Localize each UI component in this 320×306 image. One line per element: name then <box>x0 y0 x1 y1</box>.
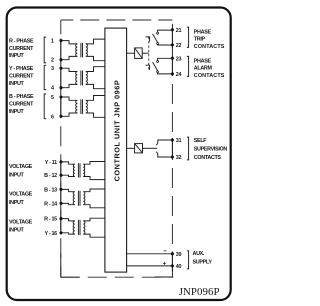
wire: secondary top of T4 to control unit <box>83 162 105 165</box>
wire: control unit to terminal 39 (negative) <box>127 253 173 255</box>
wire: terminal 24 to blade hinge <box>158 73 173 74</box>
wire: secondary bottom of T6 to control unit <box>83 234 105 237</box>
wire: terminal-to-primary top of T6 <box>61 219 75 221</box>
svg-text:Y - PHASE: Y - PHASE <box>9 66 34 72</box>
bracket for terminals 1-2 <box>44 37 46 63</box>
svg-text:INPUT: INPUT <box>9 53 25 59</box>
transformer T5 secondary winding <box>83 192 85 205</box>
terminal 16 junction dot <box>59 231 62 234</box>
wire: terminal 22 to blade hinge <box>158 43 173 46</box>
alarm contact K1b moving blade <box>153 62 158 71</box>
control unit U1 box <box>105 28 127 272</box>
wire: secondary bottom of T5 to control unit <box>83 205 105 208</box>
svg-text:PHASE: PHASE <box>194 59 212 65</box>
svg-text:R - 15: R - 15 <box>44 217 57 223</box>
bracket for terminals 21-22 <box>187 27 189 47</box>
svg-text:−: − <box>163 248 167 255</box>
svg-text:Y - 11: Y - 11 <box>45 160 57 166</box>
svg-text:CONTACTS: CONTACTS <box>194 73 225 79</box>
wire: terminal 23 to fixed contact <box>158 58 173 60</box>
transformer T6 core <box>78 220 80 235</box>
wire: secondary bottom of T2 to control unit <box>86 84 105 88</box>
wire: terminal-to-primary bottom of T2 <box>61 84 77 87</box>
wire: terminal-to-primary bottom of T1 <box>61 56 77 59</box>
svg-text:Y - 16: Y - 16 <box>44 231 57 237</box>
terminal 21 junction dot <box>171 28 174 31</box>
wire: terminal 21 to fixed contact <box>158 30 173 32</box>
relay case outline: right dashed edge <box>171 20 173 277</box>
svg-text:AUX.: AUX. <box>193 251 205 257</box>
terminal 24 junction dot <box>171 72 174 75</box>
transformer T4 primary winding <box>73 164 74 176</box>
relay coil K2 <box>135 144 143 153</box>
transformer T4 secondary winding <box>83 164 84 176</box>
terminal 4 junction dot <box>59 86 62 89</box>
svg-text:B - 12: B - 12 <box>44 173 57 179</box>
wire: right case line solid through terminals 21-24 <box>171 24 173 76</box>
svg-text:B - 13: B - 13 <box>44 187 57 193</box>
transformer T1 secondary winding <box>86 44 88 57</box>
terminal 31 junction dot <box>171 138 174 141</box>
terminal 22 junction dot <box>171 43 174 46</box>
transformer T6 secondary winding <box>83 221 85 234</box>
svg-text:3: 3 <box>51 66 54 72</box>
svg-text:CONTACTS: CONTACTS <box>194 44 225 50</box>
wire: terminal-to-primary top of T3 <box>61 97 77 100</box>
wire: terminal 31 to contact <box>158 140 173 143</box>
transformer T1 core <box>81 43 83 58</box>
bracket for terminals 39-40 <box>187 251 189 269</box>
trip contact K1a moving blade <box>153 34 158 43</box>
transformer T2 core <box>81 71 83 86</box>
svg-text:5: 5 <box>51 95 54 101</box>
wire: relay coil K2 to contact <box>143 147 158 149</box>
svg-text:INPUT: INPUT <box>9 228 25 234</box>
transformer T1 primary winding <box>76 44 78 57</box>
terminal 15 junction dot <box>59 217 62 220</box>
svg-text:22: 22 <box>176 43 182 49</box>
wire: control unit to terminal 40 (positive) <box>127 265 173 267</box>
terminal 40 junction dot <box>171 264 174 267</box>
wire: secondary bottom of T4 to control unit <box>83 177 105 180</box>
svg-text:24: 24 <box>176 72 182 78</box>
terminal 1 junction dot <box>59 39 62 42</box>
outer rounded border frame <box>7 8 231 301</box>
wire: terminal-to-primary bottom of T4 <box>61 175 75 176</box>
transformer T5 core <box>78 191 80 206</box>
wire: secondary top of T2 to control unit <box>86 67 105 72</box>
svg-text:VOLTAGE: VOLTAGE <box>9 164 33 170</box>
wire: terminal-to-primary top of T1 <box>61 41 77 44</box>
svg-text:CURRENT: CURRENT <box>9 73 34 79</box>
terminal 5 junction dot <box>59 95 62 98</box>
alarm contact K1b fixed contact circle <box>157 61 159 63</box>
svg-text:PHASE: PHASE <box>194 29 212 35</box>
svg-text:CONTROL UNIT JNP 096P: CONTROL UNIT JNP 096P <box>112 80 121 182</box>
svg-text:JNP096P: JNP096P <box>179 286 220 298</box>
svg-text:ALARM: ALARM <box>194 66 213 72</box>
relay case outline: bottom dashed edge <box>61 276 174 278</box>
svg-text:39: 39 <box>176 252 182 258</box>
svg-text:B - PHASE: B - PHASE <box>9 94 34 100</box>
wire: control unit to relay coil K2 <box>127 147 135 149</box>
terminal 11 junction dot <box>59 160 62 163</box>
wire: terminal-to-primary bottom of T6 <box>61 233 75 234</box>
mechanical linkage of K1 (dashed) <box>148 37 150 70</box>
wire: terminal-to-primary top of T4 <box>61 162 75 164</box>
terminal 23 junction dot <box>171 57 174 60</box>
transformer T4 core <box>78 163 80 177</box>
svg-text:TRIP: TRIP <box>194 37 206 43</box>
bracket for terminals 3-4 <box>44 65 46 89</box>
svg-text:CURRENT: CURRENT <box>9 101 34 107</box>
transformer T3 primary winding <box>76 100 78 113</box>
svg-text:R - PHASE: R - PHASE <box>9 38 34 44</box>
svg-text:2: 2 <box>51 58 54 64</box>
svg-text:CURRENT: CURRENT <box>9 46 34 52</box>
svg-text:6: 6 <box>51 114 54 120</box>
transformer T5 primary winding <box>73 192 75 205</box>
terminal 39 junction dot <box>171 252 174 255</box>
svg-text:23: 23 <box>176 56 182 62</box>
relay coil K1 <box>135 48 143 59</box>
wire: terminal-to-primary bottom of T3 <box>61 113 77 116</box>
terminal 14 junction dot <box>59 202 62 205</box>
relay case outline: left dashed edge <box>60 20 62 277</box>
terminal 2 junction dot <box>59 58 62 61</box>
wire: relay coil K1 to linkage <box>142 52 149 54</box>
wire: secondary bottom of T3 to control unit <box>86 113 105 117</box>
svg-text:31: 31 <box>176 138 182 144</box>
wire: left case line solid through CT terminals 1-6 <box>60 39 62 118</box>
relay case outline: top dashed edge <box>61 19 172 21</box>
wire: terminal 32 to contact <box>158 154 173 157</box>
terminal 32 junction dot <box>171 155 174 158</box>
bracket for terminals 31-32 <box>187 137 189 160</box>
wire: secondary top of T1 to control unit <box>86 39 105 44</box>
bracket for terminals 23-24 <box>187 56 189 76</box>
wire: secondary top of T5 to control unit <box>83 189 105 192</box>
wire: right case line solid through terminals 31-32 <box>171 138 173 159</box>
transformer T6 primary winding <box>73 221 75 234</box>
wire: terminal-to-primary top of T2 <box>61 68 77 71</box>
svg-text:32: 32 <box>176 155 182 161</box>
svg-text:SELF: SELF <box>194 138 207 144</box>
svg-text:INPUT: INPUT <box>9 200 25 206</box>
transformer T3 secondary winding <box>86 100 88 113</box>
wire: right case line through terminals 39-40 down to bottom corner <box>154 252 172 278</box>
trip contact K1a actuator link <box>146 37 150 42</box>
alarm contact K1b actuator link <box>146 65 150 70</box>
svg-text:VOLTAGE: VOLTAGE <box>9 192 33 198</box>
svg-text:INPUT: INPUT <box>9 172 25 178</box>
svg-text:40: 40 <box>176 264 182 270</box>
transformer T3 core <box>81 99 83 114</box>
wire: left case line solid through VT terminals 11-16 <box>60 160 62 235</box>
wire: secondary top of T6 to control unit <box>83 218 105 221</box>
self supervision contact K2a lower tick <box>156 152 158 154</box>
svg-text:INPUT: INPUT <box>9 109 25 115</box>
terminal 12 junction dot <box>59 174 62 177</box>
terminal 6 junction dot <box>59 115 62 118</box>
svg-text:4: 4 <box>51 86 54 92</box>
svg-text:R - 14: R - 14 <box>44 201 57 207</box>
wire: terminal-to-primary top of T5 <box>61 189 75 191</box>
svg-text:INPUT: INPUT <box>9 81 25 87</box>
terminal 13 junction dot <box>59 188 62 191</box>
svg-text:SUPERVISION: SUPERVISION <box>194 147 228 153</box>
svg-text:SUPPLY: SUPPLY <box>193 260 213 266</box>
trip contact K1a fixed contact circle <box>157 32 159 34</box>
terminal 3 junction dot <box>59 67 62 70</box>
wire: left case line bottom corner <box>61 254 80 278</box>
svg-text:CONTACTS: CONTACTS <box>194 155 222 161</box>
svg-text:21: 21 <box>176 28 182 34</box>
svg-text:VOLTAGE: VOLTAGE <box>9 219 33 225</box>
transformer T2 primary winding <box>76 72 78 85</box>
self supervision contact K2a upper tick <box>156 143 158 145</box>
svg-text:+: + <box>163 260 167 267</box>
alarm contact K1b hinge circle <box>157 71 159 73</box>
wire: control unit to relay coil K1 <box>127 52 135 54</box>
wire: terminal-to-primary bottom of T5 <box>61 203 75 204</box>
wire: secondary bottom of T1 to control unit <box>86 56 105 60</box>
svg-text:1: 1 <box>51 39 54 45</box>
bracket for terminals 5-6 <box>44 94 46 119</box>
trip contact K1a hinge circle <box>157 43 159 45</box>
wire: secondary top of T3 to control unit <box>86 96 105 101</box>
transformer T2 secondary winding <box>86 72 88 85</box>
